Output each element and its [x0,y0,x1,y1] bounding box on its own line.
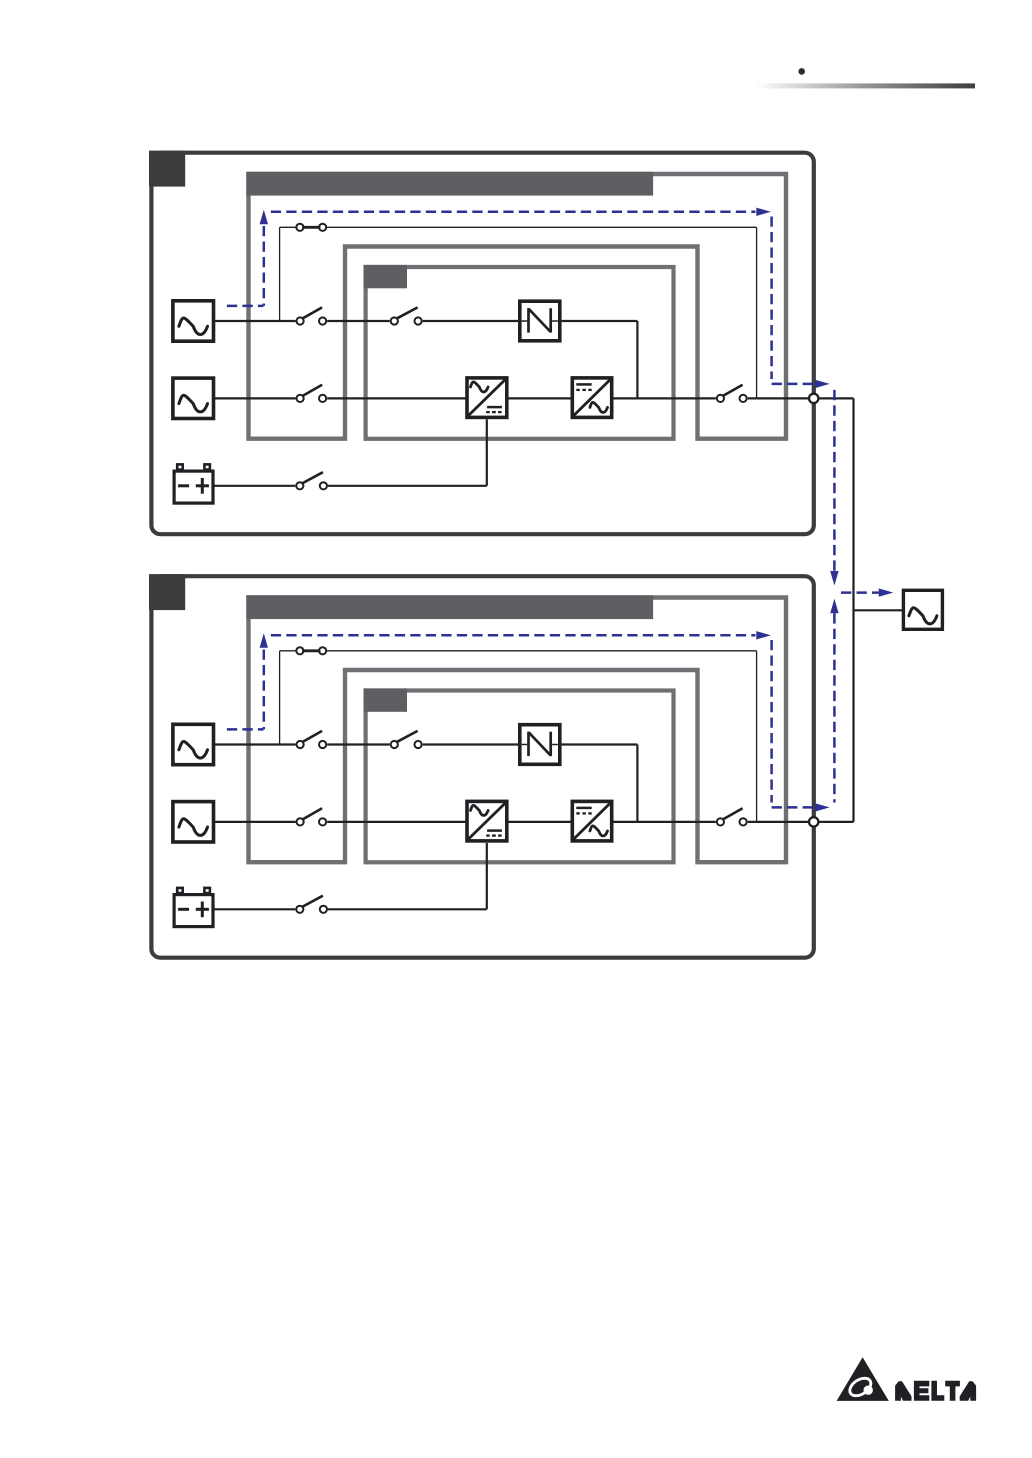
AC source 2 box [173,378,214,418]
UPS 2 cabinet frame [249,598,787,863]
wire bypass output drop [756,227,758,398]
rectifier box [467,378,507,418]
wire rectifier to inverter [507,821,573,823]
flow dash bypass top [271,211,756,214]
output terminal node [809,394,818,403]
UPS 1 name tab [149,151,185,187]
wire AC input 2 line [213,397,295,399]
wire output bus [852,398,854,822]
rectifier box [467,801,507,841]
UPS 1 enclosure [151,153,813,535]
flow dash right drop [770,217,773,380]
switch Q2 AC input 1 [297,317,304,324]
flow dash to load [841,591,879,594]
wire AC input 2 line [213,821,295,823]
UPS 2 module label tab [364,688,408,711]
header bullet dot [798,68,805,75]
AC source 2 box [173,802,214,842]
wire filter link [562,743,638,745]
UPS 1 module label tab [364,265,408,288]
wire battery line [213,908,295,910]
switch Q3 AC input 2 [297,818,304,825]
battery [177,888,183,893]
wire bypass input loop [279,227,281,321]
Delta logo triangle [837,1357,889,1401]
load box [903,590,942,629]
flow dash bypass top [271,634,756,637]
UPS 1 cabinet frame [249,174,787,439]
wire AC input 1 line [213,743,295,745]
filter box N [520,725,560,765]
flow dash from AC1 [227,728,264,731]
switch Q3 AC input 2 [297,395,304,402]
flow dash from AC1 [227,305,264,308]
flow dash to output [772,806,816,809]
wire rectifier to inverter [507,397,573,399]
wire inverter to output [612,397,716,399]
switch Q4 battery [296,482,303,489]
header rule gradient [756,83,976,88]
wire inverter to output [612,821,716,823]
flow dash to output [772,383,816,386]
switch Q4 battery [296,906,303,913]
filter box N [520,301,560,341]
Delta logo wordmark [895,1381,976,1401]
wire filter link [562,320,638,322]
inverter box [572,378,611,418]
switch Q6 output [717,395,724,402]
switch Q1 bypass (closed) [296,647,303,654]
wire output to bus [748,821,854,823]
UPS 2 power module frame [366,691,674,863]
wire battery line [213,485,295,487]
AC source 1 box [173,724,214,764]
wire bypass output drop [756,651,758,822]
flow dash bus up from UPS2 [830,599,838,614]
UPS 2 title bar [246,595,653,619]
switch Q5 module input [391,317,398,324]
AC source 1 box [173,301,214,341]
UPS 2 enclosure [151,576,813,958]
wire output to bus [748,397,854,399]
UPS 1 power module frame [366,267,674,439]
wire battery riser [486,419,488,485]
UPS 2 name tab [149,574,185,610]
wire load tap [854,609,904,611]
output terminal node [809,817,818,826]
wire bypass input loop [279,651,281,745]
flow dash right drop [770,640,773,803]
UPS 1 title bar [246,172,653,196]
switch Q2 AC input 1 [297,741,304,748]
flow dash bus down from UPS1 [833,390,836,571]
battery [177,464,183,469]
switch Q1 bypass (closed) [296,224,303,231]
wire battery riser [486,843,488,909]
switch Q6 output [717,818,724,825]
inverter box [572,801,611,841]
switch Q5 module input [391,741,398,748]
wire AC input 1 line [213,320,295,322]
